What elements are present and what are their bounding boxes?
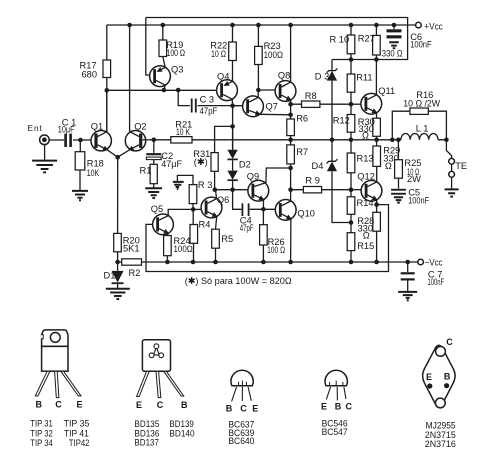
resistor R11: [350, 60, 352, 105]
diode D1: [117, 262, 119, 288]
wire emitters to R20: [117, 157, 119, 233]
resistor R28: [376, 205, 378, 262]
resistor R2: [122, 259, 142, 265]
transistor Q12: [357, 172, 382, 205]
svg-text:100nF: 100nF: [428, 277, 445, 287]
resistor R7: [287, 145, 295, 164]
resistor R24: [164, 236, 172, 256]
resistor R22: [232, 25, 234, 81]
node D4 anode / R14: [349, 220, 354, 225]
svg-text:R5: R5: [221, 234, 233, 244]
resistor R6: [287, 119, 295, 136]
svg-text:R 10: R 10: [330, 35, 350, 45]
ground (input): [44, 145, 46, 160]
svg-text:Q8: Q8: [278, 71, 290, 81]
svg-text:Q12: Q12: [357, 172, 375, 182]
svg-text:100Ω: 100Ω: [174, 244, 193, 254]
resistor R5: [212, 229, 220, 248]
svg-text:330 Ω: 330 Ω: [382, 49, 403, 59]
svg-text:D4: D4: [312, 161, 324, 171]
node bootstrap junction on output line: [288, 138, 293, 143]
node Q4 emitter / C3 / Q7 base: [230, 103, 235, 108]
svg-text:E: E: [321, 402, 327, 412]
resistor R21: [171, 137, 192, 143]
svg-text:Ω: Ω: [362, 130, 369, 140]
package TO-92 (BC637/639/640): [226, 370, 259, 446]
transistor Q7: [243, 90, 291, 117]
svg-text:D1: D1: [104, 270, 116, 280]
svg-text:Q2: Q2: [134, 122, 146, 132]
svg-text:TIP42: TIP42: [69, 437, 90, 448]
svg-text:C 3: C 3: [200, 95, 214, 105]
capacitor C6: [393, 25, 395, 29]
svg-text:5K1: 5K1: [123, 244, 140, 254]
resistor R25: [397, 140, 399, 160]
node R31 branch: [230, 124, 235, 129]
svg-text:100nF: 100nF: [408, 196, 429, 206]
wire feedback to Q5 base: [146, 205, 389, 272]
package TO-92 (BC546/547): [321, 370, 353, 437]
ground (TE): [451, 177, 453, 188]
svg-text:D2: D2: [239, 159, 251, 169]
ground (D1): [106, 289, 130, 299]
svg-text:Q3: Q3: [171, 65, 183, 75]
svg-text:R6: R6: [296, 114, 308, 124]
svg-text:Q4: Q4: [217, 72, 229, 82]
wire bias line y=189.7 (Q6 coll - D2 - Q9 base): [215, 189, 252, 191]
resistor R30: [373, 118, 381, 136]
svg-text:D 3: D 3: [315, 72, 329, 82]
wire Q3 base vertical from top rail: [146, 18, 153, 76]
svg-text:BD140: BD140: [169, 428, 194, 439]
svg-text:(✱): (✱): [194, 157, 208, 167]
svg-text:R 3: R 3: [198, 180, 212, 190]
svg-text:C: C: [157, 400, 164, 410]
svg-text:R14: R14: [357, 198, 374, 208]
svg-text:100 Ω: 100 Ω: [167, 48, 186, 58]
svg-text:2W: 2W: [407, 174, 421, 184]
resistor R15: [350, 223, 352, 263]
svg-text:Ent: Ent: [28, 123, 43, 133]
node Q5 collector / R3 / R4 / Q6 base: [191, 207, 196, 212]
svg-text:47μF: 47μF: [161, 159, 182, 169]
transistor Q11: [361, 60, 395, 119]
svg-text:100Ω: 100Ω: [264, 50, 283, 60]
resistor R9: [291, 189, 351, 191]
wire +Vcc rail y=25: [107, 24, 416, 26]
svg-text:C: C: [240, 403, 247, 413]
svg-text:10 K: 10 K: [176, 127, 191, 137]
wire Q8 base lead: [258, 89, 278, 91]
diode pair D2: [232, 126, 234, 189]
transistor Q5: [151, 204, 193, 236]
svg-text:C: C: [446, 337, 453, 347]
wire D2 bottom to C4: [233, 190, 279, 210]
transistor Q8: [275, 25, 296, 104]
node Q8 emitter / R8 / R6: [288, 102, 293, 107]
svg-text:R8: R8: [305, 91, 317, 101]
zener D3: [331, 60, 333, 140]
resistor R26: [262, 209, 264, 262]
transistor Q9: [247, 168, 291, 209]
svg-text:R 9: R 9: [305, 176, 319, 186]
zener D4: [332, 140, 351, 223]
ground (R18): [72, 191, 88, 200]
svg-text:E: E: [426, 372, 432, 382]
wire top bootstrap rail y=17.5 with right drop to y=59.5: [146, 18, 408, 60]
svg-text:R4: R4: [199, 220, 211, 230]
svg-text:10 Ω /2W: 10 Ω /2W: [403, 98, 440, 108]
node y=59.5 line dots: [349, 57, 354, 62]
svg-text:R7: R7: [296, 147, 308, 157]
svg-text:E: E: [77, 400, 83, 410]
resistor R17: [106, 25, 108, 90]
node rail dots: [127, 23, 132, 28]
svg-text:BC640: BC640: [228, 435, 254, 446]
inductor L1: [401, 134, 438, 140]
svg-text:E: E: [252, 403, 258, 413]
svg-text:R13: R13: [357, 154, 374, 164]
transistor Q10: [275, 200, 315, 263]
svg-text:BD137: BD137: [134, 437, 159, 448]
svg-text:−Vcc: −Vcc: [425, 258, 443, 268]
capacitor C5: [398, 178, 400, 188]
resistor R14: [347, 197, 355, 215]
transistor Q3: [150, 65, 184, 91]
resistor R23: [257, 25, 259, 90]
node Q2 base / C2: [152, 138, 157, 143]
terminal +Vcc: [416, 22, 422, 28]
transistor Q4: [217, 72, 238, 106]
node Q9 collector / R7: [288, 166, 293, 171]
main output line y=139.8: [192, 139, 446, 141]
svg-text:TIP 34: TIP 34: [30, 437, 53, 448]
svg-text:L 1: L 1: [416, 123, 429, 133]
svg-text:R11: R11: [356, 73, 372, 83]
svg-text:B: B: [444, 372, 451, 382]
resistor R29: [373, 146, 381, 166]
resistor R4: [192, 209, 194, 262]
svg-text:Q7: Q7: [266, 102, 278, 112]
svg-text:Q5: Q5: [151, 204, 163, 214]
svg-text:Q10: Q10: [297, 209, 315, 219]
resistor R3: [189, 185, 197, 204]
speaker terminals TE: [446, 140, 451, 159]
resistor R31: [211, 153, 218, 172]
resistor R12: [350, 104, 352, 153]
svg-text:47pF: 47pF: [240, 223, 254, 233]
negative rail y=262: [118, 261, 418, 263]
ground (R3 bias): [177, 175, 193, 184]
svg-text:2N3716: 2N3716: [425, 438, 456, 449]
svg-text:10K: 10K: [87, 168, 100, 178]
capacitor C3: [178, 90, 232, 106]
resistor R10: [350, 25, 352, 60]
node R9 / Q10 collector: [288, 187, 293, 192]
svg-text:B: B: [226, 403, 233, 413]
node Q8 base junction: [256, 88, 261, 93]
capacitor C7: [407, 262, 409, 272]
package TO-3 (MJ2955): [423, 337, 456, 449]
node Q9 emitter / R26 / Q10 base: [261, 207, 266, 212]
svg-text:E: E: [136, 400, 142, 410]
svg-text:Q9: Q9: [247, 172, 259, 182]
node Q1/Q2 emitters: [115, 155, 120, 160]
svg-text:Q11: Q11: [378, 86, 395, 96]
capacitor C2: [146, 153, 161, 155]
svg-text:10μF: 10μF: [58, 124, 75, 134]
svg-text:+Vcc: +Vcc: [424, 21, 443, 31]
node Q7 emitter junction: [288, 113, 293, 118]
capacitor C4: [242, 203, 248, 216]
svg-text:100nF: 100nF: [410, 39, 432, 49]
ground (R1): [145, 188, 162, 198]
transistor Q2: [118, 25, 155, 157]
resistor R19: [163, 25, 165, 67]
svg-text:100 Ω: 100 Ω: [267, 245, 285, 255]
transistor Q6: [201, 190, 229, 230]
node Q11 base: [349, 102, 354, 107]
svg-text:B: B: [335, 402, 342, 412]
svg-text:R15: R15: [357, 241, 374, 251]
svg-text:TE: TE: [455, 161, 467, 171]
resistor R20: [117, 252, 119, 262]
resistor R18: [79, 140, 81, 190]
svg-text:B: B: [181, 400, 188, 410]
resistor R13: [347, 153, 355, 173]
node Q1 collector junction: [105, 88, 110, 93]
svg-text:R2: R2: [129, 268, 141, 278]
svg-text:47pF: 47pF: [200, 106, 218, 116]
terminal -Vcc: [418, 259, 424, 265]
resistor R8: [291, 103, 351, 105]
package TO-220 (TIP series): [30, 330, 89, 448]
transistor Q1: [91, 90, 118, 157]
node Q12 emitter / R28 / feedback: [374, 202, 379, 207]
wire Q1-collector node to Q4 base y=90: [107, 90, 221, 135]
package TO-126 (BD series): [134, 340, 194, 448]
svg-text:C: C: [346, 402, 353, 412]
svg-text:10 Ω: 10 Ω: [211, 49, 226, 59]
svg-text:Q6: Q6: [217, 195, 229, 205]
svg-text:(✱) Só para 100W = 820Ω: (✱) Só para 100W = 820Ω: [185, 276, 292, 286]
svg-text:C: C: [55, 400, 62, 410]
svg-text:Ω: Ω: [363, 231, 370, 241]
svg-text:R12: R12: [333, 116, 350, 126]
svg-text:Ω: Ω: [385, 161, 392, 171]
node Q12 base / R9: [349, 187, 354, 192]
svg-text:Q1: Q1: [91, 122, 103, 132]
resistor R27: [375, 25, 377, 60]
capacitor C1: [49, 139, 80, 141]
resistor R1: [153, 160, 155, 188]
svg-text:BC547: BC547: [322, 426, 348, 437]
svg-text:680: 680: [82, 70, 98, 80]
resistor R16 bypass: [392, 111, 446, 140]
node Q1 base: [78, 138, 83, 143]
svg-text:R27: R27: [358, 34, 375, 44]
svg-text:B: B: [36, 400, 43, 410]
svg-text:R1: R1: [140, 166, 152, 176]
